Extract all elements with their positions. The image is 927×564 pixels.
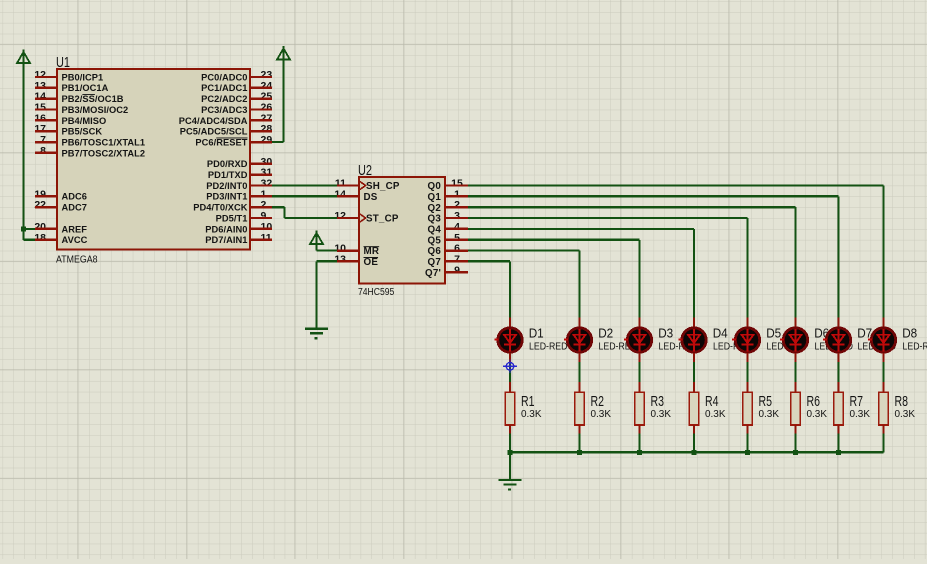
wire U2 Q7 to LED D1 column [468,260,511,317]
wire resistor R3 to ground rail [638,434,640,453]
svg-text:22: 22 [34,199,46,211]
svg-text:D5: D5 [766,326,781,341]
wire LED D3 cathode to resistor R3 [638,362,640,382]
svg-text:D7: D7 [857,326,872,341]
U1 pin 18 AVCC (left) [34,232,87,245]
U2 value label 74HC595 [358,287,395,298]
svg-text:Q4: Q4 [428,225,442,236]
svg-text:PB1/OC1A: PB1/OC1A [62,83,109,93]
resistor R2 [575,382,585,434]
LED D1 value label LED-RED [529,341,568,352]
wire to U1 pin 18 AVCC [24,239,36,241]
wire U2 Q0 to LED D8 column [468,184,885,317]
svg-text:D3: D3 [658,326,673,341]
U1 pin 10 PD6/AIN0 (right) [205,221,272,234]
resistor R8 [879,382,889,434]
svg-text:18: 18 [34,232,46,244]
LED D4 reference label [713,326,728,341]
junction node on ground rail x=639.5 [637,450,642,455]
svg-text:PD1/TXD: PD1/TXD [208,170,248,180]
U1 reference designator [56,55,70,71]
svg-text:Q3: Q3 [428,214,442,225]
wire U2 Q3 to LED D5 column [468,217,749,318]
power terminal VCC (right of U1, to PC6/RESET) [277,46,290,60]
U1 pin 24 PC1/ADC1 (right) [201,80,272,93]
svg-text:D4: D4 [713,326,728,341]
svg-text:R2: R2 [591,394,605,410]
LED D8 reference label [902,326,917,341]
U2 pin 2 Q2 (right) [428,199,468,214]
svg-text:AREF: AREF [62,224,88,234]
U2 pin 6 Q6 (right) [428,243,468,258]
ground symbol bottom [499,479,522,491]
resistor R2 value label 0.3K [591,409,612,420]
U2 pin 4 Q4 (right) [428,221,468,236]
U2 reference designator [358,163,372,179]
U1 pin 9 PD5/T1 (right) [216,210,272,223]
svg-text:PB0/ICP1: PB0/ICP1 [62,72,104,82]
wire U1 pin 32 PD2/INT0 to U2 SH_CP [272,184,337,186]
resistor R1 value label 0.3K [521,409,542,420]
LED D3 reference label [658,326,673,341]
svg-text:0.3K: 0.3K [651,409,672,420]
power terminal VCC (left of U1) [17,50,30,64]
svg-text:ATMEGA8: ATMEGA8 [56,255,98,266]
wire U2 Q6 to LED D2 column [468,249,581,317]
resistor R5 [743,382,753,434]
svg-text:PB7/TOSC2/XTAL2: PB7/TOSC2/XTAL2 [62,148,146,158]
wire LED D6 cathode to resistor R6 [794,362,796,382]
wire LED D2 cathode to resistor R2 [578,362,580,382]
wire resistor R7 to ground rail [837,434,839,453]
svg-text:29: 29 [261,134,273,146]
U1 pin 32 PD2/INT0 (right) [206,178,272,191]
svg-text:DS: DS [364,192,378,203]
U1 pin 17 PB5/SCK (left) [34,123,102,136]
LED D3 value label LED-RED [659,341,698,352]
svg-text:PC5/ADC5/SCL: PC5/ADC5/SCL [180,127,248,137]
U2 pin 12 ST_CP (left) [334,210,399,225]
LED D4 [679,318,707,363]
wire power rail down left side of U1 [22,63,24,240]
svg-text:Q5: Q5 [428,235,442,246]
resistor R6 value label 0.3K [807,409,828,420]
wire resistor R1 to ground rail [509,434,511,453]
LED D2 reference label [598,326,613,341]
U1 pin 11 PD7/AIN1 (right) [205,232,272,245]
U1 pin 22 ADC7 (left) [34,199,87,212]
svg-text:Q7': Q7' [425,268,441,279]
junction node on ground rail x=694 [692,450,697,455]
U2 pin 13 OE (left) [334,253,378,268]
resistor R1 [505,382,515,434]
svg-text:ADC6: ADC6 [62,192,88,202]
U1 pin 13 PB1/OC1A (left) [34,80,108,93]
wire LED D4 cathode to resistor R4 [693,362,695,382]
U1 pin 25 PC2/ADC2 (right) [201,91,272,104]
U2 pin 1 Q1 (right) [428,188,468,203]
wire from power terminal down to pin 29 [272,60,285,144]
LED D6 value label LED-RED [815,341,854,352]
svg-text:PB4/MISO: PB4/MISO [62,116,107,126]
LED D1 [495,318,523,363]
U1 pin 27 PC4/ADC4/SDA (right) [179,112,273,125]
U2 pin 14 DS (left) [334,188,377,203]
U2 pin 15 Q0 (right) [428,178,468,193]
wire from U2 pin 13 OE to ground [315,260,337,327]
wire LED D1 cathode to resistor R1 [509,362,511,382]
LED D4 value label LED-RED [713,341,752,352]
U1 pin 28 PC5/ADC5/SCL (right) [180,123,273,136]
svg-text:MR: MR [364,246,380,257]
resistor R6 [791,382,801,434]
resistor R7 reference label [850,394,864,410]
svg-text:OE: OE [364,257,379,268]
U1 pin 19 ADC6 (left) [34,188,87,201]
svg-text:Q1: Q1 [428,192,442,203]
svg-text:11: 11 [261,232,272,244]
svg-text:PB5/SCK: PB5/SCK [62,127,103,137]
svg-text:AVCC: AVCC [62,235,88,245]
LED D5 [732,318,760,363]
junction node on ground rail x=795.5 [793,450,798,455]
LED D2 value label LED-RED [599,341,638,352]
svg-text:D2: D2 [598,326,613,341]
wire from power terminal to U2 pin 10 MR [315,244,337,252]
U1 pin 26 PC3/ADC3 (right) [201,102,272,115]
LED D8 value label LED-RED [903,341,927,352]
U1 pin 1 PD3/INT1 (right) [206,188,272,201]
U1 pin 2 PD4/T0/XCK (right) [193,199,272,212]
U2 pin 10 MR (left) [334,243,379,258]
svg-text:PB3/MOSI/OC2: PB3/MOSI/OC2 [62,105,129,115]
svg-text:PB2/SS/OC1B: PB2/SS/OC1B [62,94,124,104]
LED D7 reference label [857,326,872,341]
svg-text:0.3K: 0.3K [521,409,542,420]
U1 pin 23 PC0/ADC0 (right) [201,69,272,82]
svg-text:PC0/ADC0: PC0/ADC0 [201,72,247,82]
LED D5 reference label [766,326,781,341]
wire resistor R8 to ground rail [882,434,884,453]
wire LED D7 cathode to resistor R7 [837,362,839,382]
svg-text:PD4/T0/XCK: PD4/T0/XCK [193,203,247,213]
wire U2 Q2 to LED D6 column [468,206,797,318]
svg-text:LED-RED: LED-RED [903,341,927,352]
LED D8 [868,318,896,363]
U1 pin 29 PC6/RESET (right) [195,134,272,147]
svg-text:R7: R7 [850,394,864,410]
LED D6 reference label [814,326,829,341]
U2 pin 11 SH_CP (left) [335,178,400,193]
wire U2 Q1 to LED D7 column [468,195,840,317]
U1 pin 8 PB7/TOSC2/XTAL2 (left) [35,145,145,158]
ground symbol below OE [305,328,328,340]
svg-text:PD2/INT0: PD2/INT0 [206,181,247,191]
svg-text:R5: R5 [759,394,773,410]
svg-text:13: 13 [334,253,346,265]
U1 pin 15 PB3/MOSI/OC2 (left) [34,102,128,115]
svg-text:8: 8 [40,145,46,157]
svg-text:ST_CP: ST_CP [366,214,399,225]
svg-text:D8: D8 [902,326,917,341]
svg-text:PB6/TOSC1/XTAL1: PB6/TOSC1/XTAL1 [62,138,146,148]
svg-text:R8: R8 [895,394,909,410]
svg-text:0.3K: 0.3K [591,409,612,420]
svg-text:ADC7: ADC7 [62,203,88,213]
svg-text:0.3K: 0.3K [705,409,726,420]
svg-text:PC2/ADC2: PC2/ADC2 [201,94,247,104]
U1 pin 14 PB2/SS/OC1B (left) [34,91,123,104]
U1 pin 7 PB6/TOSC1/XTAL1 (left) [35,134,145,147]
LED D3 [624,318,652,363]
resistor R3 reference label [651,394,665,410]
resistor R4 reference label [705,394,719,410]
U1 pin 16 PB4/MISO (left) [34,112,106,125]
svg-text:0.3K: 0.3K [850,409,871,420]
svg-text:R4: R4 [705,394,719,410]
junction node at AREF [21,226,26,231]
IC U1 ATMEGA8 body [57,69,250,250]
svg-text:U2: U2 [358,163,372,179]
origin marker (blue crosshair) below D1 [503,360,517,374]
svg-text:12: 12 [334,210,346,222]
svg-text:Q6: Q6 [428,246,442,257]
wire resistor R6 to ground rail [794,434,796,453]
LED D2 [564,318,592,363]
svg-text:PC3/ADC3: PC3/ADC3 [201,105,247,115]
IC U2 74HC595 body [359,177,445,284]
U2 pin 7 Q7 (right) [428,253,468,268]
svg-text:PC6/RESET: PC6/RESET [195,138,247,148]
LED D7 [823,318,851,363]
U1 pin 31 PD1/TXD (right) [208,167,272,180]
resistor R8 value label 0.3K [895,409,916,420]
svg-text:14: 14 [334,188,346,200]
ground rail wire [510,451,884,453]
wire U2 Q4 to LED D4 column [468,228,695,318]
svg-text:74HC595: 74HC595 [358,287,395,298]
wire LED D8 cathode to resistor R8 [882,362,884,382]
resistor R4 value label 0.3K [705,409,726,420]
svg-text:PC4/ADC4/SDA: PC4/ADC4/SDA [179,116,248,126]
svg-text:PD5/T1: PD5/T1 [216,213,248,223]
LED D1 reference label [529,326,544,341]
svg-text:PC1/ADC1: PC1/ADC1 [201,83,247,93]
resistor R4 [689,382,699,434]
resistor R7 [834,382,844,434]
U2 pin 5 Q5 (right) [428,232,468,247]
LED D7 value label LED-RED [858,341,897,352]
resistor R7 value label 0.3K [850,409,871,420]
resistor R6 reference label [807,394,821,410]
wire LED D5 cathode to resistor R5 [746,362,748,382]
wire resistor R2 to ground rail [578,434,580,453]
svg-text:0.3K: 0.3K [895,409,916,420]
svg-text:R6: R6 [807,394,821,410]
junction node on ground rail x=838.5 [836,450,841,455]
svg-text:U1: U1 [56,55,70,71]
wire U1 pin 2 PD4/T0/XCK to U2 ST_CP [272,206,337,219]
LED D5 value label LED-RED [767,341,806,352]
svg-text:PD0/RXD: PD0/RXD [207,159,248,169]
resistor R3 value label 0.3K [651,409,672,420]
U2 pin 9 Q7' (right) [425,264,468,279]
wire resistor R4 to ground rail [693,434,695,453]
junction node on ground rail x=510 [508,450,513,455]
svg-text:PD7/AIN1: PD7/AIN1 [205,235,247,245]
resistor R3 [635,382,645,434]
wire to U1 pin 20 AREF [24,228,36,230]
U1 pin 12 PB0/ICP1 (left) [34,69,103,82]
U1 pin 30 PD0/RXD (right) [207,156,272,169]
wire U2 Q5 to LED D3 column [468,239,641,318]
resistor R5 value label 0.3K [759,409,780,420]
svg-text:SH_CP: SH_CP [366,181,400,192]
svg-text:Q7: Q7 [428,257,442,268]
junction node on ground rail x=747.5 [745,450,750,455]
svg-text:0.3K: 0.3K [807,409,828,420]
resistor R1 reference label [521,394,535,410]
LED D6 [780,318,808,363]
svg-text:R1: R1 [521,394,535,410]
svg-text:9: 9 [454,264,460,276]
junction node on ground rail x=579.5 [577,450,582,455]
wire U1 pin 1 PD3/INT1 to U2 DS [272,195,337,197]
power terminal VCC (left of U2, to MR) [310,231,323,245]
svg-text:0.3K: 0.3K [759,409,780,420]
U2 pin 3 Q3 (right) [428,210,468,225]
wire rail to ground symbol [509,452,511,479]
svg-text:Q2: Q2 [428,203,442,214]
resistor R2 reference label [591,394,605,410]
svg-text:LED-RED: LED-RED [529,341,568,352]
svg-text:PD3/INT1: PD3/INT1 [206,192,247,202]
svg-text:R3: R3 [651,394,665,410]
U1 pin 20 AREF (left) [34,221,87,234]
svg-text:Q0: Q0 [428,181,442,192]
resistor R5 reference label [759,394,773,410]
U1 value label ATMEGA8 [56,255,98,266]
svg-text:PD6/AIN0: PD6/AIN0 [205,224,247,234]
wire resistor R5 to ground rail [746,434,748,453]
svg-text:D1: D1 [529,326,544,341]
resistor R8 reference label [895,394,909,410]
